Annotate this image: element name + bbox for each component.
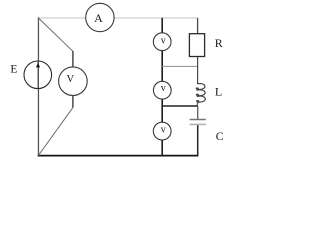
- wire R bottom lead down to inductor top (through J1): [197, 57, 199, 85]
- wire bottom horizontal (return/common node): [38, 155, 199, 157]
- svg-text:L: L: [215, 85, 222, 99]
- svg-text:v: v: [161, 125, 166, 136]
- voltmeter v3 (circle, across C): [153, 122, 171, 140]
- svg-text:v: v: [161, 83, 166, 94]
- resistor R (rectangle body): [189, 34, 204, 57]
- source E arrowhead (up): [36, 63, 40, 68]
- svg-text:E: E: [10, 63, 17, 75]
- inductor L (3-loop coil): [196, 84, 205, 106]
- voltmeter v1 (circle, across R): [153, 33, 171, 51]
- voltmeter v2 (circle, across L): [153, 81, 171, 99]
- svg-text:v: v: [161, 35, 166, 46]
- capacitor C bottom plate: [190, 123, 206, 125]
- wire vertical stub below voltmeter V: [72, 96, 74, 108]
- wire junction J2 horizontal (L-C node to voltmeter branch): [162, 105, 198, 107]
- wire left vertical (E branch): [37, 17, 39, 155]
- wire diagonal from voltmeter V bottom to bottom-left corner: [38, 108, 73, 156]
- capacitor C top plate: [190, 119, 206, 121]
- wire diagonal from top-left corner to voltmeter V top: [38, 18, 73, 51]
- source E arrow shaft: [37, 61, 39, 88]
- wire junction J1 horizontal (R-L node to voltmeter branch): [162, 65, 197, 67]
- wire voltmeter branch vertical (x=162): [161, 18, 163, 156]
- svg-text:C: C: [216, 129, 224, 143]
- source E (circle): [24, 61, 52, 89]
- ammeter A (circle): [86, 3, 114, 31]
- svg-text:R: R: [215, 36, 223, 50]
- voltmeter V (circle): [59, 67, 88, 96]
- wire vertical stub above voltmeter V: [72, 51, 74, 67]
- svg-text:A: A: [94, 11, 103, 25]
- wire capacitor bottom lead to bottom wire: [197, 125, 199, 156]
- wire component branch top lead (top wire corner down to R): [197, 18, 199, 34]
- wire top horizontal (node between E+, A, R): [38, 17, 198, 19]
- svg-text:V: V: [66, 74, 74, 85]
- wire capacitor top lead: [197, 106, 199, 119]
